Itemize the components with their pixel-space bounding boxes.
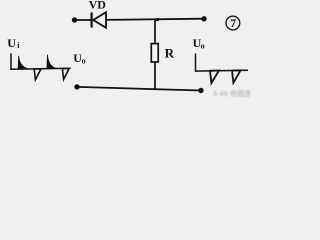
svg-text:U: U xyxy=(7,36,16,50)
label Ui xyxy=(7,36,20,50)
label Uo (left, after input network) xyxy=(73,51,85,65)
svg-text:VD: VD xyxy=(89,0,107,11)
node: bottom right terminal dot xyxy=(198,88,203,93)
output waveform negative spike 2 xyxy=(232,70,241,83)
input waveform positive spike 1 xyxy=(18,56,28,69)
output waveform negative spike 1 xyxy=(210,71,219,84)
label Uo (right output) xyxy=(193,36,205,50)
diode VD xyxy=(92,12,106,28)
node: left input terminal dot xyxy=(72,17,77,22)
svg-text:o: o xyxy=(201,41,205,50)
svg-text:o: o xyxy=(82,56,86,65)
wire: bottom rail xyxy=(77,87,201,91)
wire: resistor branch lower xyxy=(154,62,156,89)
node: right output terminal dot xyxy=(201,16,206,21)
resistor R xyxy=(151,44,158,62)
svg-text:7: 7 xyxy=(230,18,236,30)
svg-text:3-46 例题图: 3-46 例题图 xyxy=(213,89,250,98)
output waveform Uo axes xyxy=(195,53,248,71)
input waveform negative spike 1 xyxy=(34,69,41,80)
label VD xyxy=(89,0,107,11)
watermark caption 3-46 xyxy=(213,89,252,98)
input waveform negative spike 2 xyxy=(62,69,69,80)
wire: top rail, terminal to diode cathode xyxy=(75,19,92,21)
input waveform positive spike 2 xyxy=(47,55,57,69)
circuit number 7 badge xyxy=(226,16,240,30)
svg-text:R: R xyxy=(165,45,175,60)
wire: top rail, diode anode to output terminal xyxy=(106,19,204,20)
label R xyxy=(165,45,175,60)
node: junction of resistor branch on top rail xyxy=(156,18,159,21)
node: bottom left terminal dot xyxy=(74,84,79,89)
wire: resistor branch upper xyxy=(154,20,156,44)
input waveform Ui axes xyxy=(10,53,70,69)
